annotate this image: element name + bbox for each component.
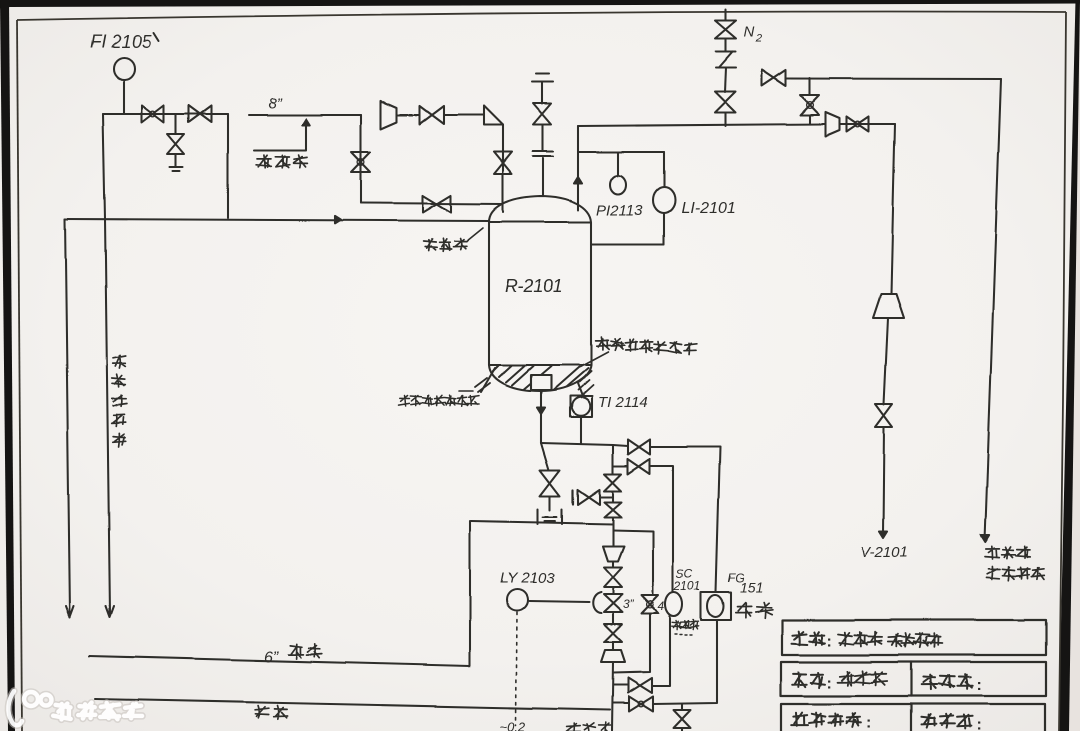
- valve N2 top: [716, 21, 737, 39]
- valve main 3: [604, 567, 622, 587]
- wire ly dashed: [516, 612, 517, 725]
- instrument SC2101 bubble: [666, 592, 683, 616]
- wire N2 branch: [725, 10, 726, 126]
- svg-text:FI 2105: FI 2105: [90, 32, 152, 52]
- arrow wax line 1: [106, 606, 114, 617]
- valve sg bottom: [629, 697, 653, 712]
- catalyst drain slashes: [475, 378, 490, 392]
- svg-text:N: N: [744, 24, 755, 41]
- valve bypass right gate: [494, 152, 512, 174]
- title box 2: [781, 662, 1046, 696]
- svg-text:8”: 8”: [268, 95, 282, 112]
- svg-text:LY 2103: LY 2103: [500, 570, 555, 587]
- cv actuator: [593, 592, 601, 613]
- valve header gate: [847, 117, 869, 132]
- wire blind stub: [601, 496, 613, 498]
- svg-text::: :: [976, 677, 981, 694]
- svg-text:~0.2: ~0.2: [500, 719, 526, 731]
- valve N2 bottom: [715, 92, 736, 113]
- svg-text::: :: [866, 715, 871, 731]
- wire main v1: [612, 445, 614, 546]
- valve vent gate: [533, 104, 551, 125]
- wire reactor vent up: [577, 126, 579, 210]
- instrument loop top: [578, 151, 664, 153]
- title box 1: [782, 620, 1046, 655]
- valve vacuum gate: [762, 70, 786, 86]
- svg-text::: :: [827, 633, 832, 650]
- reducer triangle: [484, 106, 503, 125]
- arrow flare up: [302, 119, 309, 125]
- wire sc bottom: [652, 616, 670, 686]
- sight glass box: [701, 592, 731, 620]
- wire header right: [840, 123, 895, 125]
- wire vacuum top: [786, 77, 1001, 80]
- wire vacuum drop: [985, 79, 1001, 540]
- wire bypass bottom: [361, 203, 503, 204]
- instrument LY2103 bubble: [507, 590, 528, 611]
- instrument FI2105 bubble: [114, 58, 135, 80]
- wire LI bottom: [591, 243, 664, 245]
- wire sg bottom: [653, 620, 717, 704]
- wire v2101 mid: [883, 318, 888, 534]
- title name label: [793, 672, 826, 688]
- svg-text::: :: [976, 717, 981, 731]
- valve V-c drain: [168, 134, 185, 154]
- vent flange pair: [533, 151, 553, 156]
- wire PI stub: [617, 152, 619, 176]
- svg-text:R-2101: R-2101: [505, 275, 563, 296]
- wire sg top: [613, 445, 720, 592]
- svg-text:2: 2: [755, 33, 762, 45]
- arrow vacuum: [981, 535, 990, 542]
- arrow vent up: [574, 177, 582, 184]
- instrument LI2101 bubble: [653, 187, 675, 213]
- wire v2101 upper: [891, 124, 895, 294]
- wire bypass left leg: [360, 115, 362, 203]
- drain end ticks: [170, 167, 183, 171]
- wire vent header: [578, 124, 826, 126]
- title unit label: [792, 631, 826, 645]
- valve main 2: [605, 502, 622, 517]
- wire sg bottom to main: [613, 702, 629, 704]
- valve sg top: [628, 440, 650, 455]
- wire packing line: [95, 699, 610, 710]
- label sample point: [672, 620, 699, 630]
- reducer main top: [603, 546, 624, 561]
- valve V-a globe: [142, 106, 164, 123]
- reactor top dome: [489, 196, 591, 222]
- reactor bottom dome: [489, 365, 591, 391]
- wire 4in stub: [613, 530, 653, 673]
- wire outlet horizontal: [541, 443, 613, 445]
- wire sc bottom to main: [613, 684, 628, 686]
- blind tick: [572, 490, 574, 504]
- wire drain leg: [541, 443, 550, 510]
- svg-text:151: 151: [740, 579, 763, 595]
- valve main 1: [605, 474, 622, 491]
- wire FI2105 stem: [123, 80, 125, 114]
- wire FI loop right leg: [227, 114, 229, 218]
- wire main feed line: [65, 219, 489, 221]
- wire bottom drop: [681, 704, 683, 731]
- ti stub: [577, 382, 582, 395]
- valve blind: [578, 490, 600, 505]
- wire main v2: [612, 561, 613, 731]
- svg-text:2101: 2101: [673, 579, 701, 593]
- svg-text:TI 2114: TI 2114: [598, 394, 648, 411]
- title box 2 divider: [910, 662, 912, 696]
- wire cv branch: [809, 78, 811, 124]
- valve sc top: [628, 459, 650, 474]
- watermark logo: [8, 691, 142, 725]
- wire flare branch: [254, 124, 306, 150]
- right edge gray strip: [1067, 0, 1080, 731]
- label packing: [254, 706, 287, 720]
- wire outlet drop: [540, 390, 542, 443]
- wire sc top: [613, 466, 673, 592]
- svg-text:3”: 3”: [623, 597, 635, 611]
- arrow outlet: [537, 408, 545, 415]
- valve bypass bottom gate: [423, 196, 451, 213]
- valve cv globe: [801, 95, 820, 115]
- title time label: [791, 713, 861, 728]
- arrow main feed: [335, 216, 341, 223]
- outer black border left: [0, 0, 15, 731]
- N2 z-symbol: [716, 52, 736, 68]
- label catalyst drain: [399, 395, 480, 406]
- wire bypass right leg: [502, 125, 504, 212]
- valve V-b gate: [189, 106, 212, 123]
- title box 3 divider: [910, 704, 912, 731]
- valve bypass top gate: [420, 106, 444, 124]
- svg-text:V-2101: V-2101: [860, 544, 908, 561]
- valve bypass globe: [352, 152, 371, 172]
- wire ti drop: [580, 417, 582, 444]
- svg-text:6”: 6”: [264, 649, 279, 666]
- drain funnel: [538, 509, 562, 524]
- wire drain stub: [175, 114, 177, 134]
- valve sc bottom: [628, 678, 652, 693]
- wire bypass top: [397, 114, 484, 116]
- reducer header: [826, 112, 840, 136]
- wire ly signal: [529, 601, 589, 602]
- reactor packing hatch: [493, 365, 591, 390]
- valve bottom drop: [674, 710, 691, 728]
- valve v2101: [876, 404, 893, 427]
- svg-text:LI-2101: LI-2101: [681, 200, 735, 217]
- instrument PI2113 bubble: [610, 176, 626, 195]
- svg-text::: :: [827, 675, 832, 692]
- vent atmosphere symbol: [532, 74, 553, 82]
- wire 6in return: [471, 521, 613, 524]
- label sightglass cjk: [736, 602, 773, 618]
- valve main cv3: [604, 594, 623, 612]
- wire 6in bypass: [89, 521, 470, 666]
- title grader label: [921, 675, 972, 690]
- instrument TI2114: [570, 396, 592, 417]
- valve 4in: [642, 595, 659, 613]
- funnel v2101: [873, 294, 904, 318]
- wire wax flush line 2: [65, 219, 70, 614]
- svg-text:PI2113: PI2113: [596, 202, 643, 219]
- label molecular sieve: [424, 239, 467, 252]
- wire 8in line: [249, 114, 361, 116]
- wire drain tail: [175, 154, 177, 166]
- title reviewer label: [921, 714, 972, 729]
- arrow v2101: [879, 532, 887, 539]
- label to-flare: [256, 155, 307, 168]
- label wax flush vertical: [112, 355, 127, 447]
- reactor shell: [489, 222, 591, 365]
- valve drain big: [540, 470, 560, 496]
- label ceramic balls: [596, 337, 697, 355]
- reactor bottom nozzle: [531, 375, 551, 390]
- wire vent stack: [542, 83, 543, 196]
- wire LI leg: [663, 152, 665, 244]
- title box 3: [781, 704, 1045, 731]
- wire wax flush line 1: [103, 114, 110, 614]
- arrow wax line 2: [66, 606, 74, 617]
- reducer trapezoid top: [381, 101, 397, 129]
- valve main 4: [604, 624, 622, 642]
- ti slashes: [578, 380, 593, 395]
- outer black border right: [1059, 0, 1080, 731]
- outer black border top: [0, 0, 1080, 9]
- wire FI2105 top header: [103, 113, 228, 115]
- catalyst drain pointer: [459, 390, 473, 392]
- expander main: [601, 650, 625, 662]
- label vacuum l2: [987, 567, 1045, 581]
- catalyst drain stub: [481, 368, 495, 392]
- label bottom cut 2: [567, 723, 613, 731]
- label vacuum l1: [985, 546, 1030, 559]
